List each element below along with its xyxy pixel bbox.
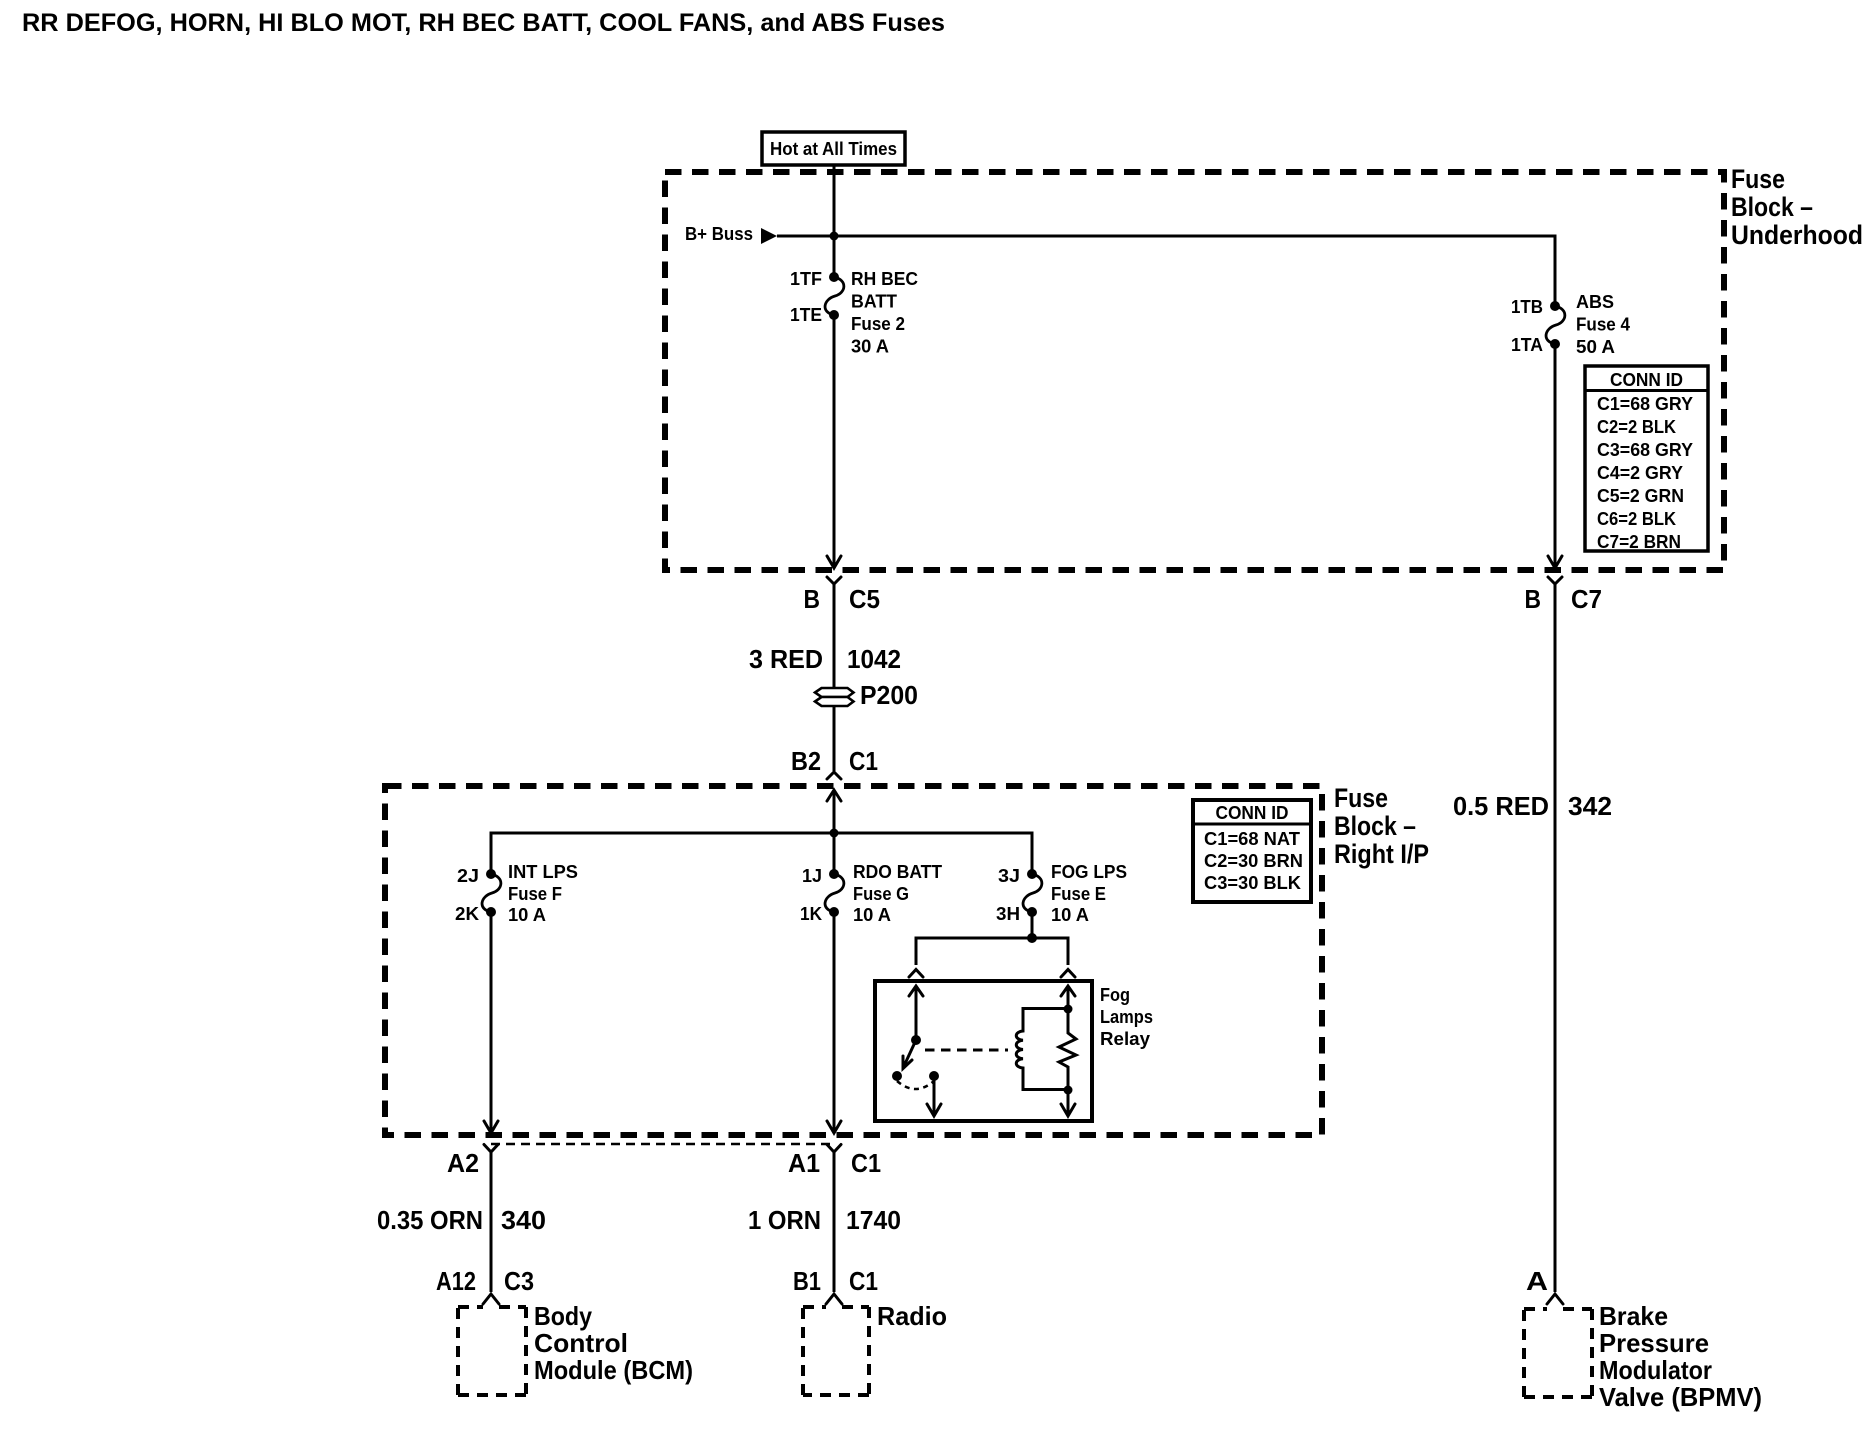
relay switch blade with arrowhead <box>904 1040 916 1066</box>
connector A1 / C1 <box>788 1145 881 1179</box>
svg-text:3H: 3H <box>996 904 1020 924</box>
connector B / C5 <box>804 577 881 614</box>
svg-text:C3=68 GRY: C3=68 GRY <box>1597 440 1693 460</box>
pin arrow at block exit A1 <box>827 1121 841 1133</box>
label box: Hot at All Times <box>762 132 905 165</box>
fuse: ABS Fuse 4 50 A <box>1546 301 1565 349</box>
wire: 1 ORN 1740 <box>833 1152 836 1292</box>
svg-text:1740: 1740 <box>846 1205 901 1235</box>
label: Fuse Block - Underhood <box>1731 164 1863 250</box>
relay switch pivot <box>911 1035 921 1045</box>
svg-text:A2: A2 <box>447 1148 479 1178</box>
dashed travel arc between contacts <box>897 1081 934 1089</box>
svg-text:Radio: Radio <box>877 1301 947 1331</box>
label: RH BEC BATT Fuse 2 30 A <box>851 269 918 357</box>
svg-text:C2=30 BRN: C2=30 BRN <box>1204 851 1303 871</box>
CONN ID table (right I/P) <box>1193 800 1311 902</box>
svg-text:10 A: 10 A <box>853 905 891 925</box>
wire: relay pin to coil tap <box>1067 986 1070 1009</box>
svg-text:10 A: 10 A <box>508 905 546 925</box>
wire: fuse G output to A1 <box>833 912 836 1132</box>
pin arrow at underhood block exit (left) <box>827 556 841 568</box>
wire: feed from Hot at All Times into fuse block <box>833 165 836 277</box>
svg-text:Fuse E: Fuse E <box>1051 884 1106 904</box>
CONN ID table (underhood) <box>1585 366 1708 552</box>
svg-text:Module (BCM): Module (BCM) <box>534 1355 693 1385</box>
svg-text:Fog: Fog <box>1100 985 1130 1005</box>
svg-text:RDO BATT: RDO BATT <box>853 862 942 882</box>
label: ABS Fuse 4 50 A <box>1576 292 1630 357</box>
node: relay branch junction <box>1027 933 1037 943</box>
svg-text:10 A: 10 A <box>1051 905 1089 925</box>
component box: Body Control Module (BCM) <box>458 1301 693 1395</box>
svg-text:1K: 1K <box>800 904 822 924</box>
fuse block - right I/P (dashed box) <box>385 786 1322 1135</box>
node: B+ buss tap junction <box>830 232 839 241</box>
svg-text:Hot at All Times: Hot at All Times <box>770 139 897 159</box>
node: distribution junction <box>830 829 839 838</box>
svg-text:Fuse: Fuse <box>1731 164 1785 194</box>
svg-text:RH BEC: RH BEC <box>851 269 918 289</box>
svg-text:FOG LPS: FOG LPS <box>1051 862 1127 882</box>
svg-text:Brake: Brake <box>1599 1301 1668 1331</box>
svg-text:1TF: 1TF <box>790 269 822 289</box>
svg-text:C1=68 NAT: C1=68 NAT <box>1204 829 1300 849</box>
svg-text:Fuse 2: Fuse 2 <box>851 314 905 334</box>
connector B1 / C1 <box>793 1266 878 1304</box>
svg-text:C1: C1 <box>849 1266 878 1296</box>
dashed linkage switch to coil <box>925 1049 1008 1052</box>
svg-text:1 ORN: 1 ORN <box>748 1205 821 1235</box>
svg-text:2J: 2J <box>457 866 479 886</box>
svg-text:RR DEFOG, HORN, HI BLO MOT, RH: RR DEFOG, HORN, HI BLO MOT, RH BEC BATT,… <box>22 9 945 37</box>
svg-text:1TB: 1TB <box>1511 297 1543 317</box>
svg-text:BATT: BATT <box>851 292 897 312</box>
wire: entry to distribution node <box>833 790 836 833</box>
connector A <box>1526 1266 1563 1304</box>
svg-text:C1: C1 <box>849 746 878 776</box>
svg-text:CONN ID: CONN ID <box>1216 803 1289 823</box>
wire: 0.5 RED 342 <box>1554 584 1557 1292</box>
svg-text:3J: 3J <box>998 866 1020 886</box>
svg-text:C7=2 BRN: C7=2 BRN <box>1597 532 1681 552</box>
svg-text:CONN ID: CONN ID <box>1610 370 1683 390</box>
svg-text:C3: C3 <box>504 1266 534 1296</box>
svg-text:1J: 1J <box>802 866 822 886</box>
fuse: RDO BATT Fuse G 10 A <box>825 869 844 917</box>
relay resistor <box>1059 1009 1076 1090</box>
label: Fog Lamps Relay <box>1100 985 1153 1049</box>
svg-text:Block –: Block – <box>1731 192 1813 222</box>
wire: distribution bus <box>491 833 1032 874</box>
svg-text:50 A: 50 A <box>1576 337 1615 357</box>
connector A12 / C3 <box>436 1266 534 1304</box>
svg-text:B2: B2 <box>791 746 821 776</box>
svg-text:C6=2 BLK: C6=2 BLK <box>1597 509 1676 529</box>
pin arrow at underhood block exit (right) <box>1548 556 1562 568</box>
svg-text:B: B <box>804 584 821 614</box>
relay pin arrow (coil input) <box>1061 986 1075 996</box>
wire: coil output with arrow to relay bottom <box>1067 1090 1070 1115</box>
svg-text:A12: A12 <box>436 1266 476 1296</box>
svg-text:Fuse: Fuse <box>1334 783 1388 813</box>
svg-text:C2=2 BLK: C2=2 BLK <box>1597 417 1676 437</box>
node: coil bottom tap <box>1064 1086 1073 1095</box>
svg-text:1TE: 1TE <box>790 305 822 325</box>
connector B / C7 <box>1525 577 1603 614</box>
splice P200 <box>815 680 918 710</box>
svg-text:30 A: 30 A <box>851 337 889 357</box>
fuse: FOG LPS Fuse E 10 A <box>1023 869 1042 917</box>
svg-text:C5: C5 <box>849 584 880 614</box>
svg-text:340: 340 <box>501 1205 546 1235</box>
wire: 0.35 ORN 340 <box>490 1152 493 1292</box>
svg-text:B1: B1 <box>793 1266 821 1296</box>
relay box: Fog Lamps Relay <box>875 981 1092 1121</box>
component box: Brake Pressure Modulator Valve (BPMV) <box>1524 1301 1762 1412</box>
svg-text:Body: Body <box>534 1301 592 1331</box>
svg-text:C7: C7 <box>1571 584 1602 614</box>
svg-text:1TA: 1TA <box>1511 335 1543 355</box>
svg-text:B+ Buss: B+ Buss <box>685 224 753 244</box>
relay switch contact (left) <box>892 1071 902 1081</box>
svg-text:2K: 2K <box>455 904 479 924</box>
wire: relay feed branch <box>916 938 1068 965</box>
relay coil <box>1016 1009 1068 1090</box>
fuse: INT LPS Fuse F 10 A <box>482 869 501 917</box>
svg-text:Modulator: Modulator <box>1599 1355 1712 1385</box>
svg-text:C3=30 BLK: C3=30 BLK <box>1204 873 1301 893</box>
svg-text:Fuse 4: Fuse 4 <box>1576 315 1630 335</box>
svg-text:P200: P200 <box>860 680 918 710</box>
svg-text:0.5 RED: 0.5 RED <box>1453 791 1549 821</box>
svg-text:Block –: Block – <box>1334 811 1416 841</box>
connector caret at relay pin 2 <box>1061 970 1075 978</box>
wire: fuse 2 output to connector C5 <box>833 315 836 567</box>
component box: Radio <box>803 1301 947 1395</box>
svg-text:Underhood: Underhood <box>1731 220 1863 250</box>
label: B+ Buss with arrow <box>685 224 777 244</box>
relay switch contact (output) <box>929 1071 939 1081</box>
svg-text:A: A <box>1526 1266 1548 1296</box>
node: coil top tap <box>1064 1005 1073 1014</box>
label: FOG LPS Fuse E 10 A <box>1051 862 1127 925</box>
label: RDO BATT Fuse G 10 A <box>853 862 942 925</box>
svg-text:342: 342 <box>1568 791 1612 821</box>
svg-text:Valve (BPMV): Valve (BPMV) <box>1599 1382 1762 1412</box>
wire: switch output with arrow to relay bottom <box>933 1076 936 1115</box>
svg-text:1042: 1042 <box>847 644 901 674</box>
svg-text:C5=2 GRN: C5=2 GRN <box>1597 486 1684 506</box>
wire: 3 RED 1042 <box>833 584 836 689</box>
svg-text:C1: C1 <box>851 1148 881 1178</box>
wire: fuse E output to relay branch <box>1031 912 1034 938</box>
svg-text:0.35 ORN: 0.35 ORN <box>377 1205 483 1235</box>
thin dashed connector line between A2 and A1 <box>491 1143 834 1146</box>
wire: middle drop <box>833 833 836 874</box>
wire: relay pin to switch pivot <box>915 986 918 1040</box>
wire: splice to connector B2/C1 <box>833 706 836 771</box>
pin arrow entering right I/P block <box>827 790 841 801</box>
svg-text:Lamps: Lamps <box>1100 1007 1153 1027</box>
connector B2 / C1 <box>791 746 878 779</box>
svg-text:Control: Control <box>534 1328 628 1358</box>
svg-text:C1=68 GRY: C1=68 GRY <box>1597 394 1693 414</box>
svg-text:Fuse F: Fuse F <box>508 884 562 904</box>
svg-text:Right I/P: Right I/P <box>1334 839 1429 869</box>
svg-text:C4=2 GRY: C4=2 GRY <box>1597 463 1683 483</box>
pin arrow at block exit A2 <box>484 1121 498 1133</box>
svg-text:ABS: ABS <box>1576 292 1614 312</box>
svg-text:Pressure: Pressure <box>1599 1328 1709 1358</box>
fuse: RH BEC BATT Fuse 2 30 A <box>825 272 844 320</box>
svg-text:Relay: Relay <box>1100 1029 1150 1049</box>
connector caret at relay pin 1 <box>909 970 923 978</box>
connector A2 <box>447 1145 498 1179</box>
label: INT LPS Fuse F 10 A <box>508 862 578 925</box>
svg-text:3 RED: 3 RED <box>749 644 823 674</box>
wire: B+ buss horizontal <box>777 236 1555 306</box>
svg-text:B: B <box>1525 584 1542 614</box>
svg-text:A1: A1 <box>788 1148 820 1178</box>
fuse block - underhood (dashed box) <box>665 172 1724 570</box>
svg-text:INT LPS: INT LPS <box>508 862 578 882</box>
wire: fuse 4 output to connector C7 <box>1554 344 1557 567</box>
label: Fuse Block - Right I/P <box>1334 783 1429 869</box>
relay pin arrow (switch input) <box>909 986 923 996</box>
wire: fuse F output to A2 <box>490 912 493 1132</box>
svg-text:Fuse G: Fuse G <box>853 884 909 904</box>
